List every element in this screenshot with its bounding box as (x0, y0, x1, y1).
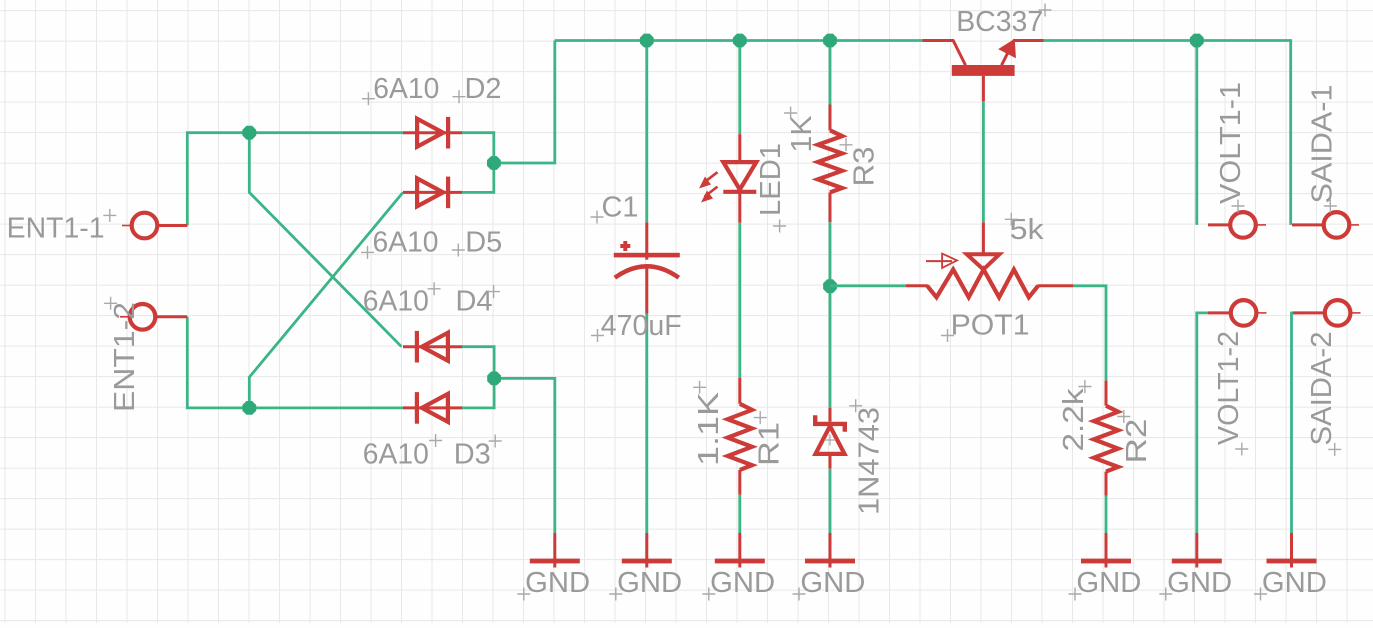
label GND (GND bridge) (517, 567, 590, 601)
svg-text:GND: GND (1076, 567, 1141, 599)
label 6A10 of D5 (361, 227, 439, 259)
svg-text:D5: D5 (465, 227, 502, 259)
svg-text:POT1: POT1 (951, 310, 1030, 342)
junction C1 rail (640, 34, 654, 48)
capacitor C1 (614, 222, 680, 313)
label 6A10 of D3 (363, 434, 442, 471)
label 470uF value of C1 (591, 310, 682, 342)
svg-text:6A10: 6A10 (373, 73, 439, 105)
label R1 (754, 411, 786, 466)
svg-text:D2: D2 (465, 73, 502, 105)
junction LED1 rail (733, 34, 747, 48)
label R2 (1117, 410, 1153, 464)
label 1N4743 value (849, 399, 885, 515)
label VOLT1-1 (1215, 82, 1247, 213)
svg-text:2.2k: 2.2k (1058, 388, 1090, 452)
label GND (GND zener) (793, 567, 866, 601)
svg-text:1K: 1K (786, 115, 818, 153)
wire LED1 to R1 (738, 223, 741, 378)
svg-text:R2: R2 (1121, 419, 1153, 464)
svg-text:C1: C1 (602, 192, 639, 224)
svg-text:BC337: BC337 (956, 6, 1043, 38)
label BC337 (956, 4, 1051, 38)
svg-text:GND: GND (800, 567, 865, 599)
svg-text:VOLT1-1: VOLT1-1 (1215, 82, 1247, 204)
svg-text:SAIDA-1: SAIDA-1 (1307, 85, 1339, 204)
svg-text:6A10: 6A10 (363, 286, 429, 318)
junction node AC1 (242, 126, 256, 140)
wire net AC1 (ENT1-1 to D2 anode) (187, 133, 403, 226)
diode D3 (403, 392, 462, 424)
label VOLT1-2 (1213, 331, 1248, 456)
svg-text:R1: R1 (754, 422, 786, 466)
junction node VOUT (1190, 34, 1204, 48)
diode D4 (403, 331, 462, 363)
wire R1 to ground (738, 495, 741, 533)
diode D2 (403, 117, 462, 149)
resistor R3 (818, 105, 842, 223)
label 1.1K value of R1 (693, 381, 725, 466)
label R3 (840, 138, 881, 186)
svg-text:SAIDA-2: SAIDA-2 (1306, 332, 1338, 446)
junction node AC2 (242, 401, 256, 415)
ground symbol GND bridge (530, 533, 580, 568)
svg-text:GND: GND (617, 567, 682, 599)
wire C1 bottom to ground (645, 314, 648, 534)
junction R3 rail (823, 34, 837, 48)
wire C1 top (645, 41, 648, 223)
label 6A10 of D4 (363, 282, 441, 317)
wire net AC2 diagonal to D5 anode (249, 192, 403, 408)
label D5 (452, 227, 502, 259)
diode D5 (403, 177, 462, 209)
svg-text:GND: GND (710, 567, 775, 599)
wire SAIDA-2 to ground (1292, 313, 1304, 533)
svg-text:6A10: 6A10 (363, 439, 429, 471)
label ENT1-2 (104, 297, 141, 412)
transistor Q1 BC337 (923, 41, 1044, 102)
zener diode 1N4743 (815, 408, 845, 469)
label SAIDA-2 (1306, 332, 1341, 456)
connector pin SAIDA-2 (1293, 300, 1361, 326)
potentiometer POT1 (906, 222, 1073, 297)
connector pin ENT1-1 (122, 213, 187, 239)
label POT1 (941, 310, 1030, 342)
connector pin VOLT1-1 (1208, 212, 1266, 238)
svg-text:GND: GND (1262, 567, 1327, 599)
wire net GND to ground symbol (494, 378, 555, 533)
resistor R1 (728, 378, 752, 495)
svg-text:D4: D4 (456, 286, 493, 318)
label ENT1-1 (7, 209, 117, 245)
wire net AC1 diagonal to D4 cathode (249, 133, 401, 347)
label GND (GND SAIDA-2) (1254, 567, 1327, 601)
junction node GND bridge (487, 372, 501, 386)
wire zener node to POT1 (830, 284, 906, 287)
wire emitter rail VOUT (1043, 41, 1290, 225)
label D2 (453, 73, 502, 105)
wire net VIN+ to top rail (494, 41, 555, 164)
wire LED1 top (738, 41, 741, 135)
label 6A10 of D2 (362, 73, 439, 105)
svg-text:GND: GND (525, 567, 590, 599)
label D3 (454, 435, 502, 471)
svg-text:VOLT1-2: VOLT1-2 (1213, 331, 1245, 445)
label GND (GND C1) (609, 567, 682, 601)
label GND (GND R1) (702, 567, 775, 601)
label D4 (456, 285, 501, 317)
ground symbol GND C1 (622, 533, 672, 568)
wire R3 to zener node (829, 222, 832, 408)
connector pin ENT1-2 (120, 304, 187, 330)
label 5k value of POT1 (1005, 213, 1044, 246)
svg-text:GND: GND (1167, 567, 1232, 599)
ground symbol GND SAIDA-2 (1267, 533, 1317, 568)
svg-text:D3: D3 (454, 439, 491, 471)
svg-text:ENT1-2: ENT1-2 (109, 302, 141, 412)
svg-text:470uF: 470uF (601, 310, 682, 342)
wire POT1 to R2 (1073, 286, 1106, 381)
connector pin SAIDA-1 (1292, 212, 1359, 238)
label GND (GND VOLT1-2) (1159, 567, 1232, 601)
wire top rail VIN+ (555, 39, 923, 42)
ground symbol GND zener (805, 533, 855, 568)
ground symbol GND R1 (715, 533, 765, 568)
junction node VIN+ (487, 156, 501, 170)
svg-text:1.1K: 1.1K (693, 391, 725, 466)
wire VOUT to VOLT1-1 (1195, 41, 1198, 225)
connector pin VOLT1-2 (1208, 300, 1267, 326)
label 1K value of R3 (784, 107, 818, 153)
label GND (GND R2) (1069, 567, 1142, 601)
wire zener to ground (829, 469, 832, 533)
label 2.2k value of R2 (1058, 380, 1091, 452)
wire net GND (D4/D3 anodes) (462, 347, 494, 408)
wire R3 top (829, 41, 832, 105)
svg-text:6A10: 6A10 (373, 227, 439, 259)
ground symbol GND R2 (1081, 533, 1131, 568)
svg-text:R3: R3 (849, 147, 881, 187)
LED LED1 (699, 134, 756, 223)
ground symbol GND VOLT1-2 (1172, 533, 1222, 568)
label SAIDA-1 (1307, 85, 1339, 213)
resistor R2 (1094, 381, 1118, 496)
wire net VIN+ (D2/D5 cathodes) (462, 133, 494, 193)
wire R2 to ground (1105, 496, 1108, 533)
wire VOLT1-2 to ground (1197, 313, 1208, 533)
label C1 (591, 192, 639, 224)
wire POT1 wiper to Q1 base (982, 101, 985, 222)
svg-text:1N4743: 1N4743 (854, 407, 886, 515)
svg-text:LED1: LED1 (755, 143, 787, 216)
svg-text:ENT1-1: ENT1-1 (7, 213, 105, 245)
label LED1 (755, 143, 787, 233)
wire net AC2 (ENT1-2 to D3 cathode) (187, 317, 403, 408)
junction node zener/pot (823, 279, 837, 293)
